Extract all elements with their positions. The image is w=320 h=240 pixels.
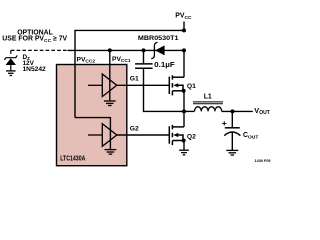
svg-text:Q1: Q1 [187, 83, 196, 90]
wire cap top lead [143, 50, 145, 63]
node Q2 source [182, 139, 186, 143]
Q1 body arrow [173, 83, 178, 87]
transistor Q2 [169, 125, 184, 145]
capacitor Cout curved plate [224, 132, 240, 136]
ground Q2 [179, 150, 189, 155]
wire cap bottom lead to switch node [144, 69, 185, 112]
svg-text:1430 F05: 1430 F05 [255, 159, 271, 163]
diode MBR0530T1 triangle [155, 45, 165, 55]
inductor L1 coil [195, 107, 222, 112]
wire G1 [117, 84, 170, 86]
Q2 gate bar [168, 126, 170, 143]
diode MBR0530T1 schottky bar [151, 42, 157, 58]
node PVcc rail junction [182, 48, 186, 52]
wire inductor to Vout [222, 110, 253, 112]
node PVcc1 junction [108, 48, 112, 52]
IC block LTC1430A [57, 65, 127, 166]
svg-text:MBR0530T1: MBR0530T1 [138, 35, 179, 42]
wire switch node to Q2 drain [183, 111, 185, 127]
wire Q1 source to switch node [183, 91, 185, 112]
wire driver 2 input stub [88, 134, 102, 136]
wire zener dashed drop [10, 50, 12, 55]
svg-text:Q2: Q2 [187, 134, 196, 141]
wire top rail PVcc [75, 30, 184, 117]
op-amp driver 1 [102, 74, 117, 97]
Q1 drain stub [172, 76, 184, 78]
wire driver 1 input stub [88, 84, 102, 86]
wire PVcc2 elbow to driver 2 [75, 118, 110, 149]
wire Cout to ground [231, 132, 233, 150]
wire PVcc1 feed through driver [109, 50, 111, 100]
node Vout junction [231, 109, 235, 113]
svg-text:L1: L1 [204, 94, 212, 101]
wire bootstrap rail [68, 49, 185, 51]
zener diode Dz cathode bar [4, 55, 17, 60]
node PVcc top-rail junction [182, 28, 186, 32]
Q1 gate bar [168, 77, 170, 94]
wire optional dashed segment [11, 49, 68, 51]
ground Cout [226, 150, 238, 155]
Q1 source stub [172, 90, 184, 92]
Q2 body arrow [173, 133, 178, 137]
op-amp driver 2 [102, 124, 117, 147]
capacitor Cout top plate [225, 127, 240, 129]
svg-text:LTC1430A: LTC1430A [60, 156, 85, 163]
wire switch node to inductor [184, 110, 195, 112]
svg-text:0.1µF: 0.1µF [154, 62, 175, 69]
Q2 body elbow [178, 135, 183, 141]
ground driver 1 [104, 101, 116, 106]
node switch junction [182, 109, 186, 113]
Q1 body elbow [178, 85, 183, 91]
Q2 drain stub [172, 126, 184, 128]
capacitor 0.1uF plates [135, 64, 153, 68]
transistor Q1 [169, 75, 184, 95]
inductor L1 core bars [193, 102, 223, 104]
wire Q2 source to ground [183, 141, 185, 150]
Q1 channel segments [171, 75, 173, 79]
svg-text:G1: G1 [130, 75, 139, 82]
svg-text:1N5242: 1N5242 [23, 66, 47, 73]
wire PVcc stub [183, 22, 185, 31]
Q2 channel segments [171, 125, 173, 129]
svg-text:+: + [222, 118, 227, 128]
wire G2 [117, 134, 170, 136]
wire zener stem [10, 65, 12, 71]
zener diode Dz triangle [6, 58, 16, 65]
ground zener [6, 71, 16, 76]
wire Vout node to Cout [231, 111, 233, 127]
node Q1 source [182, 89, 186, 93]
node cap junction [142, 48, 146, 52]
svg-text:G2: G2 [130, 126, 139, 133]
Q2 source stub [172, 140, 184, 142]
ground driver 2 [105, 150, 117, 155]
wire PVcc to Q1 drain [183, 50, 185, 77]
